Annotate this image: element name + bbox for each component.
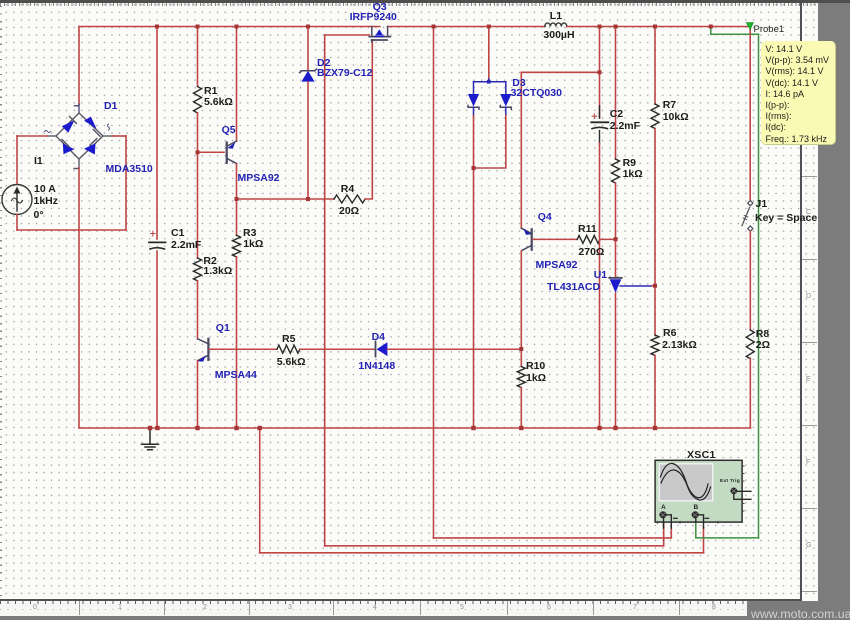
wire green horizontal to corner (711, 33, 759, 35)
bottom sheet border line (0, 599, 802, 601)
zener diode D2 (300, 69, 317, 82)
wire scope A- riser (670, 527, 672, 538)
XSC1 A minus mark (674, 517, 677, 519)
wire C2 branch upper lead (599, 72, 601, 118)
value 2.2mF (C2) (610, 120, 640, 132)
wire Q3 gate corner down (371, 40, 373, 42)
wire I1 bottom vertical (16, 214, 18, 230)
wire green bottom to scope B+ (696, 521, 759, 538)
wire scope B- riser (703, 527, 705, 553)
value 5.6k (R1) (204, 96, 233, 108)
wire I1 loop left horizontal (17, 135, 47, 137)
XSC1 trace 1 (661, 463, 709, 497)
resistor R8 (746, 330, 754, 359)
wire Q3 source long drop (to scope A+) (324, 35, 326, 546)
XSC1 B pin stubs (696, 515, 704, 528)
label R7 (663, 99, 676, 111)
label TL431ACD (547, 281, 600, 293)
label U1 (594, 269, 607, 281)
label 32CTQ030 (511, 87, 562, 99)
label B (scope) (694, 504, 699, 511)
Q3 arrow (376, 29, 383, 35)
wire loop to bridge right pin (112, 135, 126, 137)
D1 diode lower-right (84, 139, 97, 155)
right zone separators (802, 176, 817, 177)
resistor R4 (334, 195, 365, 203)
label XSC1 (687, 449, 716, 461)
wire R1 to Q5 base node (197, 113, 199, 152)
wire scope A+ horizontal (325, 545, 664, 547)
label BZX79-C12 (317, 67, 372, 79)
value 2 (R8) (756, 339, 770, 351)
resistor R11 (577, 235, 600, 243)
value 10k (R7) (663, 111, 689, 123)
XSC1 screen (659, 464, 713, 501)
wire R10 to rail (520, 388, 522, 428)
wire bridge bottom to ground rail (78, 168, 80, 428)
XSC1 A pin stubs (664, 515, 672, 528)
D3 pin dot (487, 80, 491, 84)
C2 plus sign (592, 114, 597, 119)
label I1 (34, 155, 43, 167)
right sheet border line (800, 3, 802, 601)
label C1 (171, 227, 184, 239)
XSC1 terminal A (659, 511, 666, 518)
label Key = Space (755, 212, 817, 224)
watermark www.moto.com.ua (751, 607, 850, 620)
D1 diode upper-right (84, 117, 100, 137)
label Ext Trig (720, 479, 740, 484)
shunt regulator U1 TL431 (609, 278, 652, 293)
label Probe1 (754, 24, 785, 35)
label MDA3510 (106, 163, 153, 175)
transistor Q1 (198, 339, 209, 362)
C1 plus sign (151, 231, 156, 236)
label MPSA92 (Q4) (536, 259, 578, 271)
D3 left diode (468, 94, 479, 116)
probe Probe1 (746, 23, 753, 30)
wire U1 ref to R7/R6 node (652, 285, 655, 287)
wire C1 branch lower (156, 251, 158, 428)
label R8 (756, 328, 769, 340)
wire output sense corner (Q4 collector riser) (521, 72, 599, 228)
probe tooltip box (761, 41, 836, 146)
wire node to R10 (520, 349, 522, 366)
value 1k (R9) (623, 168, 643, 180)
wire R2 to Q1 collector (197, 281, 199, 339)
wire R1 branch top (197, 27, 199, 87)
dual diode D3 center tie (474, 79, 506, 94)
D1 diode lower-left (62, 140, 74, 155)
value 0deg (34, 209, 44, 221)
wire scope A- horizontal (434, 537, 672, 539)
capacitor C2 (591, 122, 608, 128)
D3 right diode (500, 94, 511, 116)
wire Q1 emitter to rail (197, 361, 199, 428)
bottom zone strip (0, 601, 747, 615)
resistor R3 (233, 235, 241, 257)
label R1 (204, 85, 217, 97)
value 10 A (34, 183, 56, 195)
wire switch-node drop (to scope A-) (433, 27, 435, 538)
resistor R2 (194, 258, 202, 281)
D1 right pin tilde (108, 124, 110, 130)
label R2 (203, 255, 216, 267)
inductor L1 (545, 23, 567, 27)
label Q4 (538, 211, 552, 223)
value 270 (R11) (578, 246, 604, 258)
label R6 (663, 327, 676, 339)
label MPSA92 (Q5) (238, 172, 280, 184)
bridge rectifier D1 diamond (56, 113, 103, 159)
label J1 (756, 198, 768, 210)
wire node row y199 (237, 198, 335, 200)
wire Q5 collector drop (236, 27, 238, 141)
wire J1 to R8 (749, 231, 751, 330)
XSC1 terminal B (692, 511, 699, 518)
D1 bottom pin lead (74, 159, 79, 169)
resistor R7 (651, 104, 659, 129)
value 1.3k (R2) (203, 265, 232, 277)
oscilloscope XSC1 body (655, 460, 742, 522)
wire R6 to rail (654, 355, 656, 428)
label 1N4148 (358, 360, 395, 372)
resistor R1 (194, 87, 202, 113)
XSC1 ext trig terminal (730, 488, 737, 495)
wire J1 branch top (749, 27, 751, 201)
wire R9 to R11 node (615, 183, 617, 239)
wire R9 branch top (615, 27, 617, 160)
label R9 (623, 157, 636, 169)
diode D4 (376, 342, 388, 357)
current source I1 circle (2, 185, 32, 215)
value 1k (R3) (243, 238, 263, 250)
label L1 (550, 10, 562, 22)
wire D3 left cathode down (473, 116, 475, 169)
wire top bus mid segment (Q3 to L1) (388, 26, 545, 28)
wire D2 to node y199 (307, 82, 309, 199)
label MPSA44 (Q1) (215, 369, 257, 381)
right zone letters (806, 209, 811, 216)
ground symbol (142, 428, 159, 450)
value 1k (R10) (526, 372, 546, 384)
D1 right pin lead (103, 135, 112, 137)
label Q3 (373, 1, 387, 13)
switch J1 (742, 201, 753, 232)
XSC1 trace 2 (661, 470, 711, 500)
MOSFET Q3 (369, 27, 390, 41)
label R3 (243, 227, 256, 239)
wire D3 center drop (488, 27, 490, 80)
wire green long drop right side (758, 34, 760, 538)
wire R8 to rail corner (749, 358, 751, 428)
bottom zone numbers (33, 604, 37, 611)
wire scope B- horizontal (260, 552, 704, 554)
D1 left pin lead (47, 135, 56, 137)
wire Q1 base to R5 (209, 348, 277, 350)
wire I1 loop bottom horizontal (17, 229, 126, 231)
label D2 (317, 57, 330, 69)
label R10 (526, 360, 545, 372)
value 300uH (543, 29, 574, 41)
capacitor C1 (149, 242, 166, 249)
wire Q5 base (198, 151, 225, 153)
transistor Q5 (227, 141, 237, 164)
wire R5 to D4 (300, 348, 375, 350)
left edge tick column (0, 6, 2, 600)
wire output node drop (green probe tap) (710, 27, 712, 35)
value 2.2mF (C1) (171, 239, 201, 251)
wire scope A+ riser (663, 520, 665, 546)
wire node to U1 cathode (615, 239, 617, 277)
value 5.6k (R5) (277, 356, 306, 368)
wire Q4 emitter down (520, 251, 522, 349)
top ruler bar (0, 0, 850, 3)
wire C2 branch top (599, 27, 601, 73)
wire R7 branch top (654, 27, 656, 105)
value 2.13k (R6) (662, 339, 697, 351)
wire top bus right segment (L1 to J1 drop) (567, 26, 750, 28)
wire I1 loop right vertical (125, 136, 127, 230)
wire D4 to Q4 emitter node (387, 348, 521, 350)
label R11 (578, 223, 597, 235)
wire D2 branch top (307, 27, 309, 71)
label IRFP9240 (350, 11, 397, 23)
resistor R10 (517, 367, 525, 388)
resistor R9 (612, 159, 620, 183)
wire top bus left segment (79, 26, 380, 28)
wire ground rail (79, 427, 750, 429)
value 1kHz (34, 195, 59, 207)
label R4 (341, 183, 354, 195)
wire Q4 base to R11 (533, 238, 578, 240)
label Q5 (222, 124, 236, 136)
D1 left pin tilde (45, 131, 51, 133)
resistor R5 (277, 345, 300, 353)
transistor Q4 (522, 228, 532, 250)
label D4 (372, 331, 385, 343)
D1 diode upper-left (62, 117, 77, 133)
value 20 (R4) (339, 205, 359, 217)
bridge D1 top lead (75, 104, 80, 113)
right outside-sheet gray (818, 3, 850, 620)
wire C2 branch lower (599, 131, 601, 145)
wire R11 to U1 node (600, 238, 616, 240)
wire node to R3 (236, 199, 238, 235)
XSC1 ext trig pin bracket (734, 491, 751, 499)
wire R3 to rail (236, 257, 238, 428)
wire R4 to Q3 gate riser (365, 40, 372, 199)
wire R7 to ref node (654, 129, 656, 286)
label D1 (104, 100, 117, 112)
XSC1 B minus mark (705, 517, 708, 519)
label Q1 (216, 322, 230, 334)
resistor R6 (651, 335, 659, 355)
label A (scope) (661, 504, 666, 511)
label C2 (610, 108, 623, 120)
bottom gray below strip (0, 616, 850, 620)
wire node to R2 (197, 152, 199, 258)
wire Q5 emitter down (236, 164, 238, 199)
wire bus drop to bridge (78, 27, 80, 105)
wire D3 cathode tie bottom (474, 116, 506, 169)
wire Q3 source stub left (325, 34, 370, 36)
wire ground drop (to scope B-) (259, 428, 261, 553)
I1 arrow (12, 187, 23, 212)
label D3 (512, 77, 525, 89)
wire ref node to R6 (654, 286, 656, 335)
bottom zone separators (79, 601, 80, 615)
wire D3 node to ground rail (473, 168, 475, 428)
label R5 (282, 333, 295, 345)
wire I1 top vertical (16, 136, 18, 184)
XSC1 border pin ticks (658, 466, 745, 523)
wire C1 branch upper (156, 27, 158, 240)
wire U1 anode to rail (615, 293, 617, 428)
